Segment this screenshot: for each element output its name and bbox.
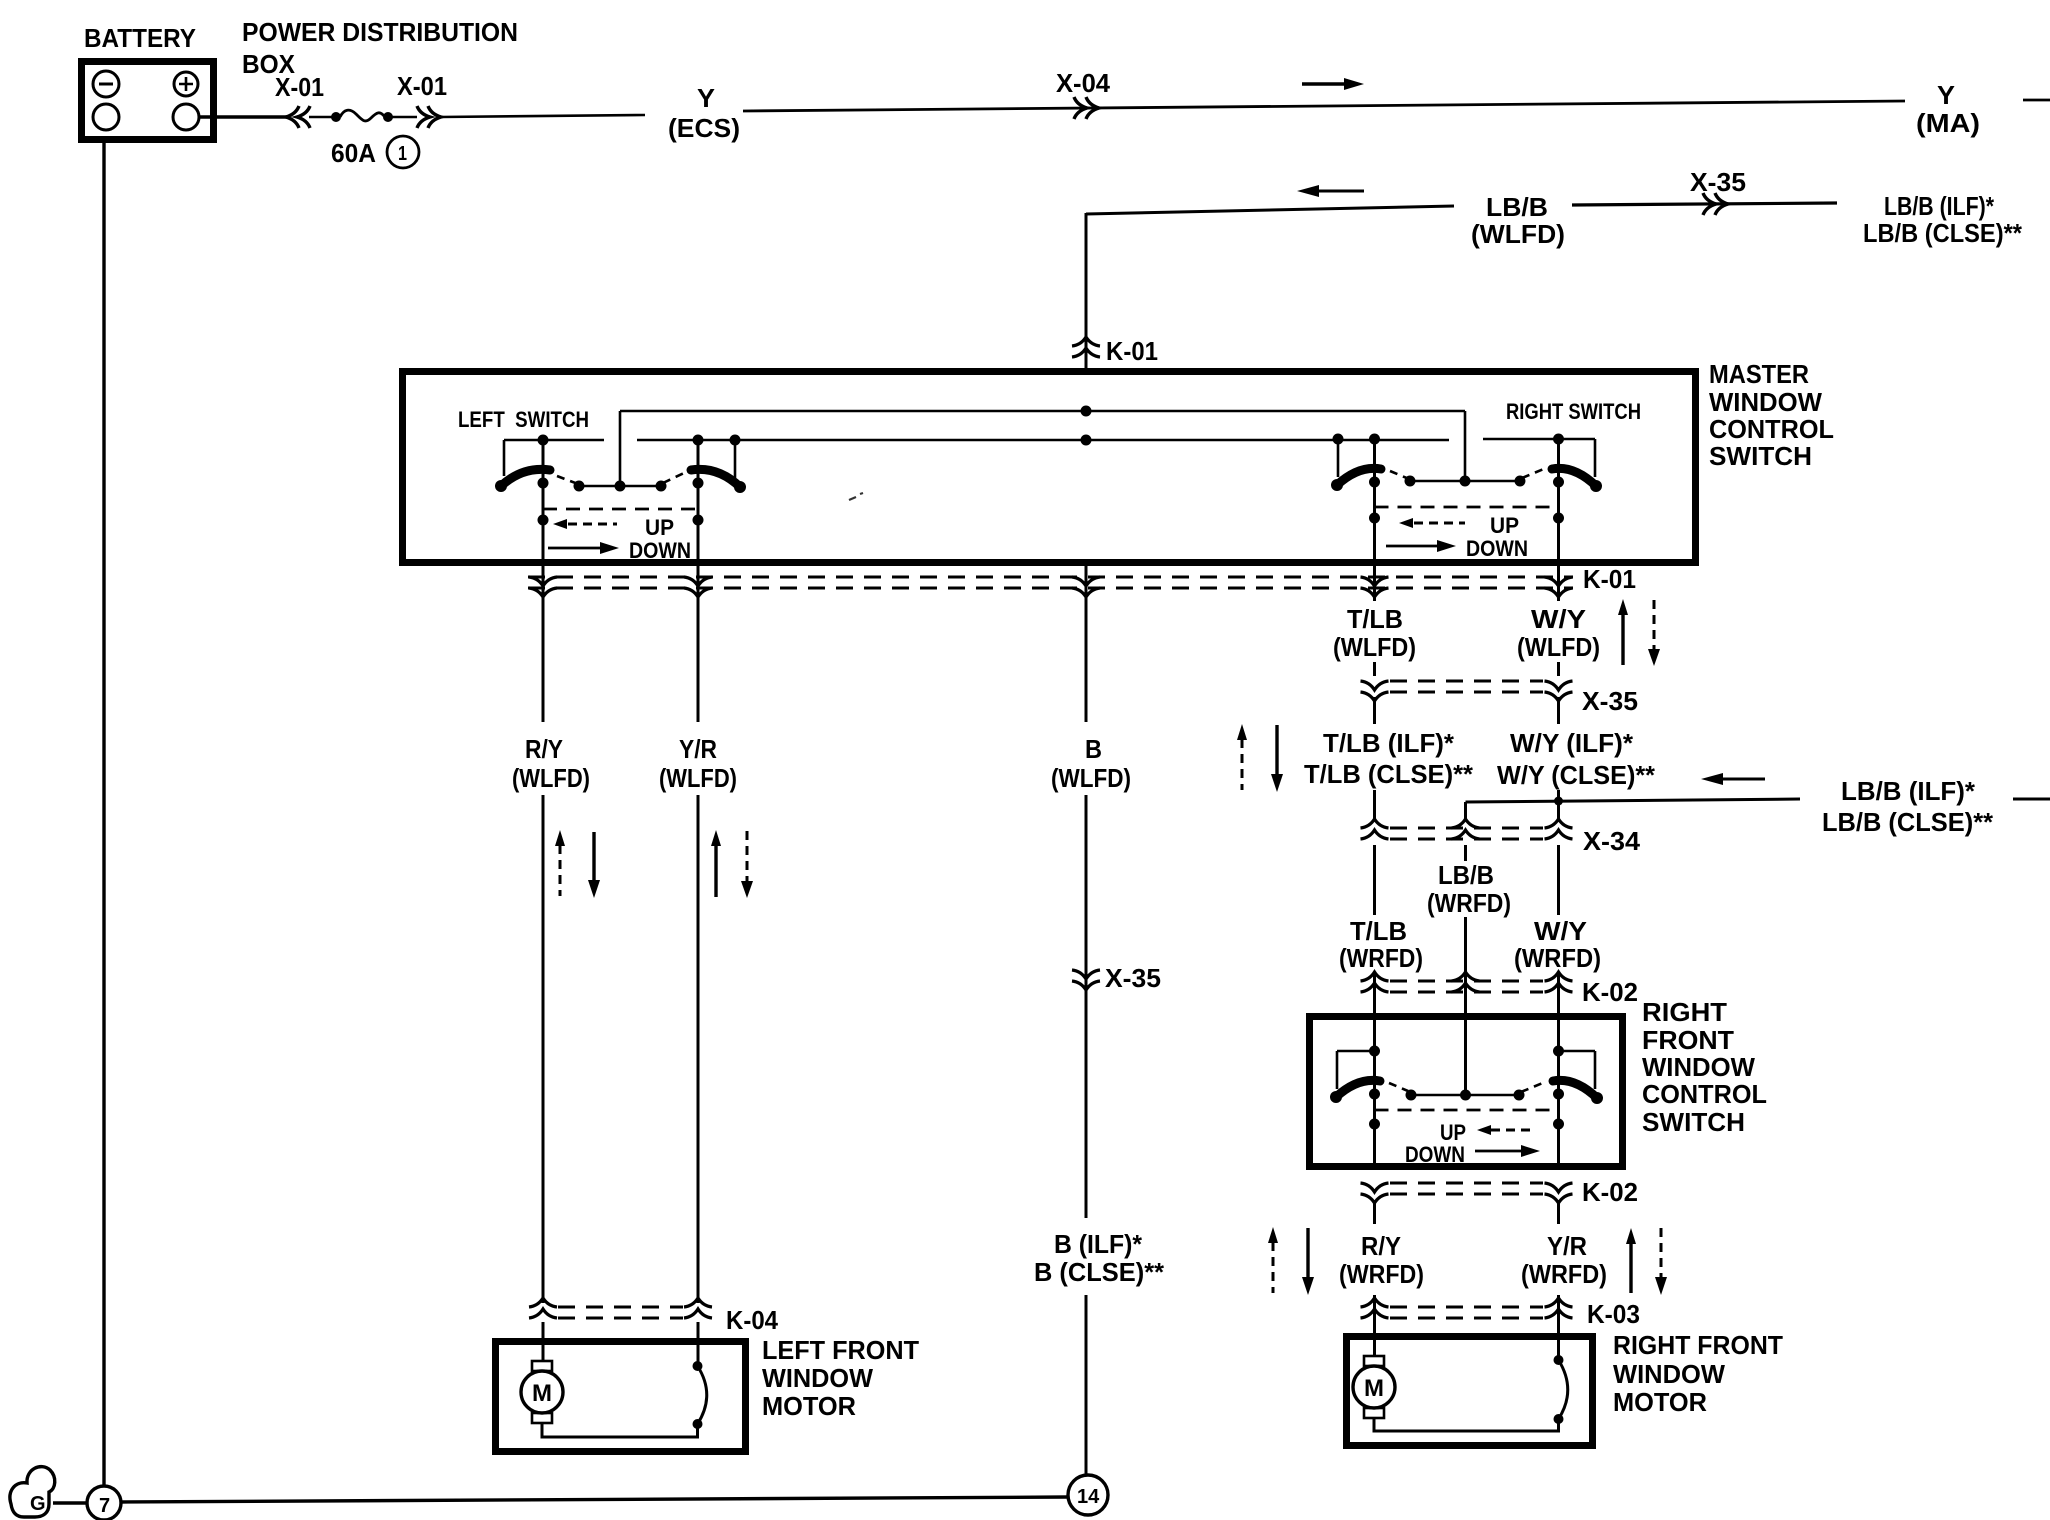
label LEFT FRONT WINDOW MOTOR xyxy=(762,1335,919,1421)
wire LB/B feed from right xyxy=(1466,799,1801,802)
wire R/Y (WLFD) upper xyxy=(542,566,545,722)
wire B (WLFD) upper xyxy=(1085,566,1088,722)
node line B junctions xyxy=(538,434,1565,446)
wire left switch bracket xyxy=(503,440,506,476)
node on line A at K-01 wire xyxy=(1081,406,1092,417)
right front window control switch box xyxy=(1310,1017,1623,1167)
svg-text:LB/B (ILF)*: LB/B (ILF)* xyxy=(1841,776,1976,806)
label RIGHT FRONT WINDOW CONTROL SWITCH xyxy=(1642,997,1767,1137)
connector X-35 (dashed pair) xyxy=(1361,681,1573,701)
svg-text:W/Y: W/Y xyxy=(1534,916,1587,946)
wire W/Y above X-34 xyxy=(1557,790,1560,820)
svg-text:14: 14 xyxy=(1077,1486,1100,1508)
node pivots right switch xyxy=(1369,477,1380,488)
svg-text:CONTROL: CONTROL xyxy=(1709,414,1834,444)
svg-text:X-35: X-35 xyxy=(1690,167,1746,197)
wire W/Y (WRFD) xyxy=(1557,845,1560,915)
svg-text:Y/R: Y/R xyxy=(1547,1231,1587,1261)
svg-text:MASTER: MASTER xyxy=(1709,359,1809,389)
wire T/LB (WRFD) xyxy=(1373,845,1376,915)
svg-text:DOWN: DOWN xyxy=(1405,1142,1465,1167)
svg-text:MOTOR: MOTOR xyxy=(1613,1387,1707,1417)
svg-text:X-35: X-35 xyxy=(1105,963,1161,993)
svg-text:Y: Y xyxy=(697,83,715,113)
ground symbol G xyxy=(10,1467,55,1517)
svg-text:WINDOW: WINDOW xyxy=(1709,387,1822,417)
arrows left of R/Y (WRFD) xyxy=(1268,1227,1314,1295)
svg-text:LB/B (CLSE)**: LB/B (CLSE)** xyxy=(1822,807,1994,837)
svg-text:SWITCH: SWITCH xyxy=(1642,1107,1745,1137)
contact row right switch xyxy=(1410,480,1520,483)
svg-text:Y/R: Y/R xyxy=(679,734,717,764)
battery xyxy=(82,62,214,140)
svg-text:X-35: X-35 xyxy=(1582,686,1638,716)
motor M left xyxy=(521,1361,563,1423)
svg-text:X-34: X-34 xyxy=(1583,826,1641,856)
svg-text:W/Y (CLSE)**: W/Y (CLSE)** xyxy=(1497,760,1656,790)
wire Y/R (WRFD) xyxy=(1557,1200,1560,1224)
wire Y to right edge xyxy=(2023,99,2050,102)
arrows right of Y/R (WRFD) xyxy=(1626,1228,1667,1295)
svg-text:(WRFD): (WRFD) xyxy=(1521,1259,1607,1289)
svg-text:W/Y (ILF)*: W/Y (ILF)* xyxy=(1510,728,1634,758)
connector K-02 lower (dashed) xyxy=(1361,1183,1573,1203)
wire battery positive to fuse xyxy=(199,115,289,118)
wire motor bottom loop left xyxy=(542,1423,698,1437)
DOWN arrow left switch xyxy=(548,542,619,554)
scan speck inside master box xyxy=(849,493,863,500)
svg-text:(WLFD): (WLFD) xyxy=(1051,763,1131,793)
wire K-01 drop from LB/B xyxy=(1085,213,1088,371)
svg-text:B (ILF)*: B (ILF)* xyxy=(1054,1229,1143,1259)
connector K-01 bottom (dashed) xyxy=(528,577,1573,597)
wire right switch bracket left xyxy=(1337,439,1340,477)
svg-text:DOWN: DOWN xyxy=(1466,536,1528,561)
arrows below Y/R label xyxy=(711,830,753,898)
svg-text:(WRFD): (WRFD) xyxy=(1514,943,1601,973)
wire pivot columns right switch xyxy=(1375,439,1559,566)
contact row left switch xyxy=(579,485,661,488)
wire right switch bracket right xyxy=(1594,439,1597,477)
svg-text:LB/B: LB/B xyxy=(1438,860,1494,890)
UP arrow right switch xyxy=(1399,518,1465,528)
svg-text:POWER DISTRIBUTION: POWER DISTRIBUTION xyxy=(242,17,518,47)
svg-text:LEFT SWITCH: LEFT SWITCH xyxy=(458,407,589,432)
svg-text:LEFT FRONT: LEFT FRONT xyxy=(762,1335,919,1365)
arrows left of T/LB (ILF) label xyxy=(1237,724,1283,792)
switch blade right (right switch) xyxy=(1552,468,1596,486)
svg-text:LB/B (CLSE)**: LB/B (CLSE)** xyxy=(1863,218,2023,248)
svg-text:K-02: K-02 xyxy=(1582,977,1638,1007)
svg-text:T/LB: T/LB xyxy=(1347,604,1403,634)
wire rf switch bracket left xyxy=(1337,1051,1375,1089)
svg-text:T/LB (CLSE)**: T/LB (CLSE)** xyxy=(1304,759,1474,789)
node W/Y crossing LB/B feed xyxy=(1554,797,1563,806)
wire T/LB above X-34 xyxy=(1373,790,1376,820)
wire LB/B to X-35 xyxy=(1572,203,1837,205)
wire left switch center drop xyxy=(619,411,622,486)
connector K-04 (dashed) xyxy=(529,1298,712,1318)
wire Y/R (WLFD) upper xyxy=(697,566,700,722)
wire pivot columns left switch xyxy=(543,440,698,566)
wire W/Y into right front switch xyxy=(1557,972,1560,1166)
wire left switch right bracket xyxy=(734,440,737,480)
arrow right on Y wire xyxy=(1302,78,1364,90)
wire Y/R into left motor xyxy=(697,1322,700,1366)
commutator arc right motor xyxy=(1559,1360,1568,1419)
svg-text:B (CLSE)**: B (CLSE)** xyxy=(1034,1257,1165,1287)
node pivots left switch xyxy=(538,478,549,489)
svg-text:RIGHT SWITCH: RIGHT SWITCH xyxy=(1506,399,1641,424)
arrows right of W/Y label xyxy=(1618,599,1660,666)
svg-text:G: G xyxy=(30,1493,46,1515)
svg-text:W/Y: W/Y xyxy=(1531,604,1586,634)
wire motor bottom loop right xyxy=(1374,1418,1559,1431)
wire R/Y (WLFD) lower xyxy=(542,795,545,1303)
svg-text:X-01: X-01 xyxy=(397,71,447,101)
wire into left motor xyxy=(542,1322,545,1361)
switch blade left (right switch) xyxy=(1337,468,1381,485)
wire Y main run xyxy=(743,101,1905,111)
wire R/Y to K-03 xyxy=(1373,1295,1376,1322)
dashed blade link xyxy=(1522,468,1546,478)
svg-text:(WLFD): (WLFD) xyxy=(512,763,590,793)
svg-text:(ECS): (ECS) xyxy=(668,113,740,143)
svg-text:T/LB (ILF)*: T/LB (ILF)* xyxy=(1323,728,1455,758)
svg-text:(WRFD): (WRFD) xyxy=(1339,1259,1424,1289)
wire T/LB (WLFD) upper xyxy=(1373,566,1376,601)
svg-text:WINDOW: WINDOW xyxy=(1613,1359,1725,1389)
commutator arc left motor xyxy=(698,1366,707,1424)
contact row rf switch xyxy=(1411,1094,1519,1097)
wire internal line A xyxy=(620,410,1465,413)
mechanical link dashes rf switch xyxy=(1375,1109,1559,1112)
wire B middle xyxy=(1085,795,1088,987)
wire W/Y below X-35 xyxy=(1557,697,1560,724)
wire W/Y (WLFD) upper xyxy=(1557,566,1560,601)
switch blade left (rf switch) xyxy=(1336,1080,1380,1097)
svg-text:(WRFD): (WRFD) xyxy=(1427,888,1511,918)
svg-text:BATTERY: BATTERY xyxy=(84,23,196,53)
svg-text:MOTOR: MOTOR xyxy=(762,1391,856,1421)
connector X-01 right xyxy=(417,106,441,128)
fuse 60A (1) xyxy=(331,112,341,122)
wire Y/R to K-03 xyxy=(1557,1295,1560,1322)
wire battery negative down xyxy=(102,143,105,1487)
wire W/Y to X-35 xyxy=(1557,662,1560,676)
motor M right xyxy=(1353,1356,1395,1418)
wire T/LB below X-35 xyxy=(1373,697,1376,724)
UP arrow left switch xyxy=(553,519,617,529)
wire Y/R (WLFD) lower xyxy=(697,795,700,1303)
svg-text:K-02: K-02 xyxy=(1582,1177,1638,1207)
right front window motor box xyxy=(1347,1337,1593,1446)
wire LB/B feed right edge stub xyxy=(2013,798,2050,801)
dashed blade link xyxy=(1389,1083,1408,1091)
dashed blade link right xyxy=(663,473,684,483)
svg-text:B: B xyxy=(1085,734,1102,764)
wire T/LB to X-35 xyxy=(1373,662,1376,676)
connector K-01 top xyxy=(1072,337,1100,357)
svg-text:LB/B: LB/B xyxy=(1486,192,1548,222)
label MASTER WINDOW CONTROL SWITCH xyxy=(1709,359,1834,471)
svg-text:(WLFD): (WLFD) xyxy=(1517,632,1600,662)
svg-text:7: 7 xyxy=(99,1495,110,1517)
svg-text:X-01: X-01 xyxy=(275,72,324,102)
svg-text:RIGHT FRONT: RIGHT FRONT xyxy=(1613,1330,1783,1360)
svg-text:M: M xyxy=(532,1380,552,1407)
svg-text:K-01: K-01 xyxy=(1583,564,1636,594)
switch blade right (rf switch) xyxy=(1553,1080,1597,1098)
label RIGHT FRONT WINDOW MOTOR xyxy=(1613,1330,1783,1417)
svg-text:RIGHT: RIGHT xyxy=(1642,997,1727,1027)
svg-text:FRONT: FRONT xyxy=(1642,1025,1734,1055)
svg-text:UP: UP xyxy=(1490,513,1519,538)
left front window motor box xyxy=(496,1342,746,1452)
connector X-34 (dashed) xyxy=(1361,819,1573,839)
wire Y to (ECS) label xyxy=(440,115,645,117)
splice 14 xyxy=(1068,1475,1108,1515)
node pivots rf switch xyxy=(1369,1089,1380,1100)
svg-text:(WRFD): (WRFD) xyxy=(1339,943,1423,973)
wire ground to splice 7 xyxy=(53,1501,87,1504)
dashed blade link xyxy=(1390,471,1409,479)
switch blade left (left switch) xyxy=(501,469,550,486)
svg-text:UP: UP xyxy=(645,515,674,540)
wire R/Y to K-04 xyxy=(542,1302,545,1303)
wire LB/B (WRFD) drop into switch xyxy=(1464,917,1467,1095)
arrow left on LB/B wire xyxy=(1297,185,1364,197)
svg-text:K-01: K-01 xyxy=(1106,336,1158,366)
wire LB/B middle drop xyxy=(1464,802,1467,820)
svg-text:M: M xyxy=(1364,1375,1384,1402)
svg-text:WINDOW: WINDOW xyxy=(762,1363,873,1393)
dashed blade link xyxy=(1521,1082,1545,1092)
wire right switch center drop xyxy=(1464,411,1467,481)
svg-text:(WLFD): (WLFD) xyxy=(1471,219,1565,249)
master window control switch box xyxy=(403,372,1696,563)
svg-text:60A: 60A xyxy=(331,138,376,168)
wire into right motor xyxy=(1373,1322,1376,1356)
svg-text:(WLFD): (WLFD) xyxy=(659,763,737,793)
svg-text:(MA): (MA) xyxy=(1916,108,1980,138)
svg-text:K-04: K-04 xyxy=(726,1305,778,1335)
wire T/LB into right front switch xyxy=(1373,972,1376,1166)
DOWN arrow right switch xyxy=(1386,540,1456,552)
wire Y/R into right motor xyxy=(1557,1322,1560,1360)
connector K-03 (dashed) xyxy=(1361,1298,1573,1318)
svg-text:LB/B (ILF)*: LB/B (ILF)* xyxy=(1884,191,1995,221)
svg-text:DOWN: DOWN xyxy=(629,538,691,563)
svg-text:WINDOW: WINDOW xyxy=(1642,1052,1755,1082)
wire B lower xyxy=(1085,987,1088,1218)
wire ground bus xyxy=(121,1497,1069,1502)
wire B to splice 14 xyxy=(1085,1295,1088,1475)
connector X-35 on B wire xyxy=(1072,970,1100,990)
svg-text:R/Y: R/Y xyxy=(525,734,563,764)
wire R/Y (WRFD) xyxy=(1373,1200,1376,1224)
splice 7 xyxy=(87,1486,121,1520)
arrow left on LB/B feed xyxy=(1701,773,1765,785)
svg-text:X-04: X-04 xyxy=(1056,68,1111,98)
svg-text:SWITCH: SWITCH xyxy=(1709,441,1812,471)
svg-text:1: 1 xyxy=(398,143,407,165)
svg-text:Y: Y xyxy=(1937,80,1955,110)
svg-text:T/LB: T/LB xyxy=(1350,916,1407,946)
svg-text:CONTROL: CONTROL xyxy=(1642,1079,1767,1109)
mechanical link dashes right switch xyxy=(1375,506,1559,509)
svg-text:(WLFD): (WLFD) xyxy=(1333,632,1416,662)
svg-text:R/Y: R/Y xyxy=(1361,1231,1401,1261)
arrows below R/Y label xyxy=(555,830,600,898)
dashed blade link left xyxy=(557,476,578,484)
wire LB/B horizontal xyxy=(1086,206,1454,214)
mechanical link dashes left switch xyxy=(543,508,698,511)
wire internal line B xyxy=(504,439,1595,440)
svg-text:K-03: K-03 xyxy=(1587,1299,1640,1329)
wire rf switch bracket right xyxy=(1559,1051,1596,1089)
wire LB/B (WRFD) xyxy=(1464,845,1467,861)
connector K-02 upper (dashed) xyxy=(1361,972,1573,992)
connector X-35 top xyxy=(1703,193,1728,215)
switch blade right (left switch) xyxy=(691,469,740,487)
connector X-01 left xyxy=(286,106,310,128)
wire into fuse xyxy=(309,116,333,119)
connector X-04 xyxy=(1074,97,1099,119)
